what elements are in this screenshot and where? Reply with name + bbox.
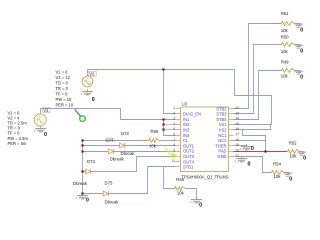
svg-text:V2: V2: [89, 71, 95, 76]
R54 value: [274, 174, 282, 179]
svg-text:0: 0: [92, 97, 95, 103]
junction node 6: [81, 144, 83, 146]
ground below V1: [34, 126, 47, 138]
D72 value Dbreak: [121, 151, 136, 156]
svg-text:R49: R49: [281, 59, 289, 64]
ground below V2: [81, 89, 95, 103]
wire R54 to ground: [286, 172, 290, 174]
U3 pin numbers: [171, 106, 239, 163]
svg-text:IN4: IN4: [183, 133, 190, 138]
R49 value: [281, 73, 289, 78]
junction node 3: [162, 123, 164, 125]
yellow highlight marker: [165, 148, 178, 159]
wire IN bus vertical to IN4: [164, 120, 176, 136]
diode D74: [86, 169, 91, 174]
svg-text:R51: R51: [281, 11, 289, 16]
svg-text:V2 = 12: V2 = 12: [56, 75, 71, 80]
svg-text:TD = 0: TD = 0: [56, 81, 69, 86]
svg-text:9: 9: [173, 148, 175, 152]
svg-text:8: 8: [173, 143, 175, 147]
svg-text:R52: R52: [289, 141, 297, 146]
svg-text:U3: U3: [182, 102, 188, 107]
wire NC2 row: [234, 140, 266, 142]
svg-text:0: 0: [300, 74, 303, 80]
svg-text:STB1: STB1: [183, 165, 194, 170]
svg-text:D74: D74: [87, 159, 95, 164]
svg-text:10k: 10k: [149, 144, 157, 149]
svg-text:21: 21: [235, 154, 239, 158]
V2 label: [88, 71, 96, 76]
svg-text:IN2: IN2: [183, 122, 190, 127]
svg-text:TR = 0: TR = 0: [56, 86, 69, 91]
D72 label: [121, 131, 129, 136]
ground at THER pin: [240, 144, 254, 152]
svg-text:STB3: STB3: [216, 112, 227, 117]
wire STB1 via D75: [83, 167, 176, 194]
svg-text:NC1: NC1: [218, 133, 227, 138]
svg-text:Dbreak: Dbreak: [73, 181, 88, 186]
svg-text:CL: CL: [183, 138, 189, 143]
resistor R50: [281, 43, 296, 47]
svg-text:IN1: IN1: [183, 117, 190, 122]
svg-text:TPS4H000A_Q1_TRANS: TPS4H000A_Q1_TRANS: [182, 175, 229, 180]
junction node 2: [162, 118, 164, 120]
svg-text:10k: 10k: [177, 191, 185, 196]
R52 label: [289, 141, 297, 146]
svg-text:10k: 10k: [281, 73, 289, 78]
svg-text:IN3: IN3: [183, 128, 190, 133]
svg-text:15: 15: [235, 122, 239, 126]
wire PAD to R52: [234, 151, 287, 153]
resistor R52: [287, 150, 301, 154]
svg-text:14: 14: [235, 117, 239, 121]
svg-text:12: 12: [235, 106, 239, 110]
junction node 10: [264, 150, 266, 152]
svg-text:10k: 10k: [274, 174, 282, 179]
D75 label: [105, 180, 113, 185]
ground right of R52: [298, 152, 307, 162]
ground at left bus bottom: [76, 193, 89, 203]
svg-text:0: 0: [303, 155, 306, 161]
ground right of R49: [295, 71, 304, 81]
svg-text:10k: 10k: [290, 153, 298, 158]
source V2: [82, 76, 93, 87]
svg-text:10k: 10k: [281, 28, 289, 33]
svg-text:19: 19: [235, 143, 239, 147]
resistor R49: [281, 69, 296, 73]
U3 pin names: [183, 106, 227, 169]
svg-text:VS1: VS1: [219, 122, 227, 127]
R50 value: [281, 49, 289, 54]
wire jog VS2 area: [243, 130, 266, 152]
R54 label: [273, 161, 281, 166]
resistor R55: [148, 139, 161, 143]
wire R49 to ground: [296, 70, 301, 72]
D73 label: [106, 137, 114, 142]
ground right of R51: [295, 24, 304, 34]
svg-text:OUT1: OUT1: [183, 143, 195, 148]
ground below R48: [190, 197, 202, 208]
svg-text:16: 16: [235, 127, 239, 131]
resistor R54: [271, 171, 286, 175]
svg-text:17: 17: [235, 133, 239, 137]
svg-text:V1 = 0: V1 = 0: [56, 70, 69, 75]
U3 refdes label: [182, 102, 188, 107]
switch U-close: [75, 110, 85, 122]
wire THER to ground: [234, 145, 247, 147]
U3 part value label: [182, 175, 229, 180]
svg-text:0: 0: [289, 176, 292, 182]
svg-text:R54: R54: [273, 161, 281, 166]
junction node 4: [162, 128, 164, 130]
U3 pin stubs: [176, 109, 234, 167]
svg-text:18: 18: [235, 138, 239, 142]
svg-text:VS2: VS2: [219, 128, 227, 133]
R48 value: [177, 191, 185, 196]
svg-text:Dbreak: Dbreak: [121, 151, 136, 156]
wire STB2 to R51: [234, 24, 281, 109]
svg-text:13: 13: [235, 111, 239, 115]
wire R50 to ground: [296, 44, 301, 46]
ground right of R54: [284, 173, 293, 183]
D73 value Dbreak: [110, 156, 125, 161]
wire left bus vertical: [82, 141, 84, 194]
wire VS2 tie: [234, 125, 271, 130]
wire GND pin to R54: [234, 157, 271, 173]
svg-text:20: 20: [235, 148, 239, 152]
op-amp U3 body: [181, 107, 229, 172]
wire R52 to ground: [301, 151, 304, 153]
R52 value: [290, 153, 298, 158]
svg-text:0: 0: [199, 202, 202, 208]
R50 label: [281, 34, 289, 39]
svg-text:6: 6: [173, 133, 175, 137]
wire IN3 stub: [164, 129, 176, 131]
junction node 9: [81, 192, 83, 194]
svg-text:0: 0: [44, 132, 47, 138]
svg-text:GND: GND: [217, 154, 226, 159]
svg-text:0: 0: [251, 146, 254, 152]
D75 value Dbreak: [105, 199, 120, 204]
svg-text:3: 3: [173, 117, 175, 121]
wire OUT1 row: [83, 145, 176, 147]
svg-text:STB2: STB2: [216, 106, 227, 111]
wire CL right: [161, 140, 176, 142]
wire V2 12V rail to VS1: [88, 70, 272, 125]
svg-text:NC2: NC2: [218, 138, 227, 143]
wire R48 to ground: [187, 189, 197, 200]
wire OUT2 row: [83, 151, 176, 153]
svg-text:PER = 10: PER = 10: [56, 103, 74, 108]
R51 value: [281, 28, 289, 33]
svg-text:5: 5: [173, 127, 175, 131]
svg-text:11: 11: [172, 159, 176, 163]
R51 label: [281, 11, 289, 16]
V1 parameter text: [8, 110, 29, 146]
svg-text:0: 0: [248, 161, 251, 167]
svg-text:D75: D75: [105, 180, 113, 185]
R55 value: [149, 144, 157, 149]
junction node 7: [81, 150, 83, 152]
wire R48 branch: [164, 167, 174, 189]
svg-text:D73: D73: [106, 137, 114, 142]
svg-text:D72: D72: [121, 131, 129, 136]
diode D75: [103, 191, 108, 196]
svg-text:7: 7: [173, 138, 175, 142]
svg-text:TF = 0: TF = 0: [56, 92, 69, 97]
svg-text:0: 0: [300, 48, 303, 54]
wire STB4 to R49: [234, 71, 281, 120]
svg-text:V1: V1: [43, 108, 49, 113]
junction node 5: [81, 139, 83, 141]
svg-text:DIAG_EN: DIAG_EN: [183, 112, 201, 117]
svg-text:R55: R55: [151, 129, 159, 134]
svg-text:R48: R48: [176, 177, 184, 182]
svg-text:Dbreak: Dbreak: [110, 156, 125, 161]
wire CL left: [83, 140, 148, 142]
resistor R51: [281, 22, 296, 26]
wire V1 pulse to IN1: [41, 109, 176, 120]
svg-text:Dbreak: Dbreak: [105, 199, 120, 204]
svg-text:PAD: PAD: [218, 149, 226, 154]
svg-text:OUT3: OUT3: [183, 154, 195, 159]
svg-text:0: 0: [86, 197, 89, 203]
source V1: [34, 114, 46, 126]
svg-text:STB4: STB4: [216, 117, 227, 122]
wire IN2 stub: [164, 124, 176, 126]
wire OUT3 via D74: [83, 157, 176, 172]
svg-text:OUT2: OUT2: [183, 149, 195, 154]
wire R51 to ground: [296, 23, 301, 25]
svg-text:1: 1: [173, 106, 175, 110]
svg-text:PW = 10: PW = 10: [56, 97, 73, 102]
R48 label: [176, 177, 184, 182]
svg-text:0: 0: [300, 27, 303, 33]
ground right of R50: [295, 45, 304, 55]
svg-text:2: 2: [173, 111, 175, 115]
svg-text:PER = 5m: PER = 5m: [8, 141, 27, 146]
svg-text:10k: 10k: [281, 49, 289, 54]
R49 label: [281, 59, 289, 64]
diode D73: [109, 149, 114, 154]
svg-text:OUT4: OUT4: [183, 159, 195, 164]
R55 label: [151, 129, 159, 134]
svg-text:THER: THER: [215, 143, 226, 148]
wire DIAG_EN drop from rail: [164, 70, 176, 114]
svg-text:R50: R50: [281, 34, 289, 39]
junction node 8: [81, 170, 83, 172]
V1 label: [42, 108, 50, 113]
D74 label: [87, 159, 95, 164]
junction node 1: [162, 68, 164, 70]
ground at GND pin wire: [235, 156, 251, 167]
resistor R48: [174, 187, 187, 191]
wire STB3 to R50: [234, 45, 281, 114]
svg-text:4: 4: [173, 122, 175, 126]
D74 value Dbreak: [73, 181, 88, 186]
V2 parameter text: [56, 70, 74, 108]
diode D72: [120, 143, 125, 148]
